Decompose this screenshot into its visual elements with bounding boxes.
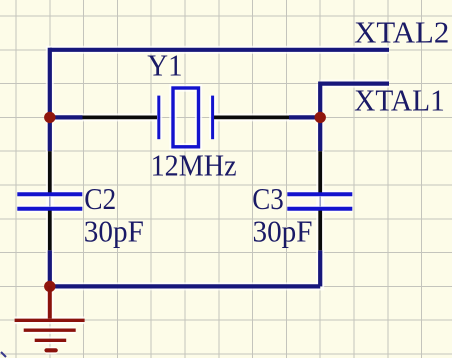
svg-text:C2: C2 — [84, 182, 116, 216]
svg-text:Y1: Y1 — [147, 49, 182, 83]
svg-text:XTAL2: XTAL2 — [354, 16, 449, 50]
junction dot right — [315, 112, 326, 123]
crystal Y1 body — [159, 88, 213, 147]
wire: right vertical to C3 — [318, 117, 322, 151]
wire: left junction to crystal pin — [50, 115, 83, 119]
capacitor C3 plates — [287, 194, 352, 208]
pin: C3 pin 1 (black) — [318, 151, 322, 193]
wire: top rail XTAL2 net — [50, 48, 389, 52]
wire: bottom rail — [50, 284, 320, 288]
wire: left vertical rail — [48, 48, 52, 152]
svg-text:30pF: 30pF — [84, 214, 144, 248]
svg-text:XTAL1: XTAL1 — [354, 84, 445, 118]
ground symbol — [15, 286, 85, 350]
svg-text:12MHz: 12MHz — [151, 149, 237, 183]
wire: right vertical below C3 — [318, 250, 322, 286]
wire: left vertical below C2 — [48, 250, 52, 286]
junction dot bottom — [44, 281, 55, 292]
pin: C2 pin 1 (black) — [48, 151, 52, 193]
pin: C2 pin 2 (black) — [48, 210, 52, 250]
sheet corner mark — [1, 352, 6, 357]
wire: XTAL1 stub — [320, 84, 389, 118]
svg-text:30pF: 30pF — [253, 214, 313, 248]
wire: crystal pin to right junction — [289, 115, 320, 119]
pin: crystal Y1 pin 2 (black) — [214, 116, 289, 120]
junction dot left — [44, 112, 55, 123]
svg-text:C3: C3 — [252, 182, 284, 216]
capacitor C2 plates — [17, 194, 82, 208]
pin: crystal Y1 pin 1 (black) — [83, 116, 158, 120]
pin: C3 pin 2 (black) — [318, 210, 322, 250]
